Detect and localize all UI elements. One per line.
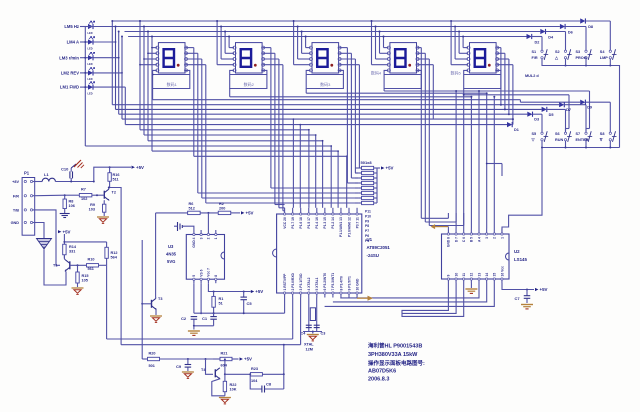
capacitor C4	[306, 324, 312, 326]
svg-text:PROG: PROG	[576, 56, 587, 60]
signal arrow to U2 pin8	[434, 226, 448, 228]
svg-text:LM1 FWD: LM1 FWD	[60, 85, 79, 90]
resistor RN1-1	[362, 166, 374, 169]
svg-text:D2: D2	[535, 41, 540, 45]
svg-text:8: 8	[214, 275, 218, 277]
svg-text:511: 511	[113, 178, 119, 182]
svg-text:C8: C8	[266, 382, 272, 387]
transistor T4	[214, 369, 216, 377]
capacitor C10	[70, 178, 72, 182]
svg-text:9: 9	[447, 275, 451, 277]
svg-text:B 5: B 5	[470, 237, 474, 242]
ground T3	[150, 315, 162, 317]
wire drop to U1	[299, 125, 301, 208]
svg-text:8 P3.4/T0: 8 P3.4/T0	[339, 276, 343, 290]
push button S5	[541, 132, 543, 134]
push button S4	[609, 50, 611, 52]
wire display left feed	[305, 37, 307, 48]
diode D4	[540, 29, 545, 34]
resistor R10	[87, 264, 99, 267]
svg-text:R23: R23	[251, 367, 258, 371]
wire U2-U1 link3	[325, 283, 495, 306]
svg-text:14: 14	[485, 273, 489, 277]
wire display3 right feed	[339, 58, 355, 60]
svg-text:-24SU: -24SU	[367, 253, 379, 258]
svg-text:F/R: F/R	[532, 56, 538, 60]
wire display left feed	[224, 32, 226, 54]
ground R22	[219, 397, 231, 399]
wire display left feed	[462, 37, 464, 48]
svg-text:GND 8: GND 8	[447, 237, 451, 247]
power +5V T1	[58, 230, 61, 233]
power +5V T4	[240, 357, 243, 360]
capacitor C2	[191, 316, 198, 318]
svg-text:10K: 10K	[230, 388, 237, 392]
svg-text:数码3: 数码3	[320, 81, 331, 87]
resistor RN1-5	[362, 186, 374, 189]
wire T4 base feed	[206, 359, 214, 374]
push button S2	[564, 50, 566, 52]
svg-text:2 P3.0/RXD: 2 P3.0/RXD	[291, 272, 295, 290]
connector P1	[22, 178, 35, 236]
capacitor C3	[314, 324, 320, 326]
svg-text:C5: C5	[247, 301, 253, 306]
resistor R12	[105, 247, 108, 258]
wire RST node	[194, 312, 285, 314]
svg-text:D1: D1	[514, 128, 519, 132]
wire top bus line 4	[128, 36, 526, 38]
resistor R21	[220, 357, 232, 360]
svg-text:R22: R22	[230, 383, 237, 387]
resistor R9	[103, 200, 105, 204]
svg-text:P1.5 17: P1.5 17	[307, 217, 311, 229]
svg-text:R21: R21	[221, 352, 228, 356]
wire scan line 8	[148, 140, 323, 142]
wire DS2 common line	[229, 89, 231, 97]
svg-text:D7: D7	[566, 108, 571, 112]
resistor R7	[79, 194, 92, 197]
wire U3 pin5 down	[193, 283, 195, 313]
svg-text:3PH380V33A 15kW: 3PH380V33A 15kW	[368, 352, 418, 358]
svg-text:3: 3	[199, 237, 203, 239]
wire scan line 2	[115, 27, 117, 110]
svg-text:51: 51	[219, 302, 223, 306]
resistor R6	[188, 211, 201, 214]
wire display left feed	[383, 37, 385, 48]
svg-text:1: 1	[214, 237, 218, 239]
capacitor C8	[250, 374, 261, 389]
power +5V at RN1	[381, 166, 384, 169]
svg-text:S7: S7	[576, 132, 581, 136]
wire display left feed	[458, 32, 460, 54]
svg-text:P9: P9	[365, 219, 369, 223]
svg-text:U2: U2	[514, 249, 520, 254]
op-amp U1 AT89C2051 microcontroller	[277, 214, 362, 293]
resistor R20	[148, 357, 160, 360]
wire vertical feed	[141, 240, 143, 359]
wire display1 right feed	[186, 47, 194, 49]
svg-text:LED: LED	[88, 63, 93, 66]
svg-text:S1: S1	[532, 50, 537, 54]
power +5V at U3	[251, 290, 254, 293]
svg-text:D9: D9	[587, 106, 592, 110]
svg-text:2: 2	[493, 237, 497, 239]
svg-text:R9: R9	[90, 203, 95, 207]
wire drop to U1	[337, 151, 339, 208]
ground RST caps	[193, 326, 195, 330]
power +5V at U2 pin16	[502, 283, 534, 290]
svg-text:C7: C7	[515, 296, 521, 301]
svg-text:16 Vcc: 16 Vcc	[500, 266, 504, 277]
wire display under-loop	[230, 70, 267, 88]
wire XTAL1 pin	[316, 298, 318, 332]
svg-text:R12: R12	[111, 251, 118, 255]
capacitor C1	[213, 313, 215, 316]
resistor RN1-2	[362, 171, 374, 174]
wire U3 pin6 down	[200, 283, 202, 313]
svg-text:604: 604	[221, 364, 228, 368]
7-segment display DS1	[158, 43, 185, 73]
wire drop to U1	[346, 156, 348, 208]
svg-text:R20: R20	[149, 352, 156, 356]
wire display2 right feed	[263, 52, 275, 54]
wire U2 input feed	[478, 91, 480, 229]
svg-text:7 P3.3/INT1: 7 P3.3/INT1	[331, 273, 335, 291]
wire drop to U1	[292, 119, 294, 208]
wire display left feed	[147, 32, 149, 141]
svg-text:11: 11	[462, 273, 466, 277]
svg-text:105: 105	[82, 279, 88, 283]
wire display4 right feed	[417, 47, 421, 49]
svg-text:D5: D5	[549, 113, 554, 117]
svg-text:R16: R16	[113, 173, 120, 177]
wire crystal gnd rail	[303, 331, 322, 333]
wire display3 right feed	[339, 47, 347, 49]
7-segment display DS3	[312, 43, 339, 73]
resistor R1	[213, 292, 215, 297]
wire display1 right feed	[186, 64, 206, 66]
wire U2 input feed	[486, 93, 488, 228]
svg-text:R6: R6	[189, 202, 194, 206]
svg-text:GND 4: GND 4	[192, 237, 196, 247]
capacitor C5	[243, 292, 245, 297]
wire row1 button rail	[542, 59, 620, 148]
transistor T3	[151, 300, 153, 308]
wire T3 emitter	[155, 309, 157, 315]
wire +5V rail	[94, 167, 131, 181]
svg-text:+5V: +5V	[246, 211, 254, 216]
svg-text:P7: P7	[365, 229, 369, 233]
svg-text:4N35: 4N35	[166, 252, 177, 257]
svg-text:+5V: +5V	[136, 165, 144, 170]
wire T4 emitter	[212, 379, 225, 396]
wire T1 base node	[70, 264, 87, 266]
wire display left feed	[371, 21, 373, 65]
ground C9	[182, 371, 194, 373]
svg-text:6 P3.2/INT0: 6 P3.2/INT0	[323, 273, 327, 291]
ground C10 diagonal	[71, 164, 76, 168]
svg-text:LM2 REV: LM2 REV	[61, 71, 79, 76]
wire P1 row3 to T1	[37, 210, 61, 265]
svg-text:数码4: 数码4	[371, 70, 382, 76]
svg-text:C10: C10	[61, 167, 69, 172]
svg-text:海利普HL P9001543B: 海利普HL P9001543B	[368, 342, 422, 350]
svg-text:S3: S3	[576, 50, 581, 54]
wire display left feed	[297, 27, 299, 60]
svg-text:106: 106	[69, 204, 75, 208]
wire display1 right feed	[186, 52, 198, 54]
wire display4 right feed	[417, 52, 425, 54]
ground U2 pin12	[470, 283, 472, 288]
svg-text:P10: P10	[365, 214, 371, 218]
svg-text:LM5 Hz: LM5 Hz	[64, 24, 79, 29]
resistor R2	[218, 211, 231, 214]
svg-text:AB07D5K6: AB07D5K6	[368, 368, 396, 374]
wire display left feed	[454, 27, 456, 60]
svg-text:C 6: C 6	[462, 237, 466, 242]
resistor R22	[224, 374, 226, 381]
wire display3 right feed	[339, 52, 351, 54]
wire DS3 common line	[305, 89, 307, 94]
wire U2 input feed	[470, 97, 472, 229]
svg-text:R15: R15	[82, 274, 89, 278]
svg-text:1 RST/VPP: 1 RST/VPP	[283, 273, 287, 291]
capacitor C9	[187, 359, 189, 364]
svg-text:GND: GND	[11, 221, 20, 225]
svg-text:数码5: 数码5	[451, 70, 462, 76]
diode D5	[542, 107, 547, 112]
wire display4 right feed	[417, 64, 433, 66]
wire R12 rail	[64, 241, 106, 243]
svg-text:L1: L1	[44, 172, 49, 177]
wire display2 right feed	[263, 47, 271, 49]
svg-text:C3: C3	[321, 332, 326, 336]
resistor R15	[77, 265, 79, 272]
svg-text:∇: ∇	[599, 138, 603, 142]
wire drop to U1	[308, 130, 310, 208]
inductor L1	[37, 181, 43, 183]
svg-text:LED: LED	[88, 32, 93, 35]
svg-text:103: 103	[89, 208, 95, 212]
svg-text:R10: R10	[88, 258, 95, 262]
wire R6 rail	[156, 212, 188, 214]
wire key common to U2	[502, 148, 542, 235]
wire display left feed	[220, 27, 222, 60]
svg-text:D8: D8	[588, 25, 593, 29]
svg-text:+5V: +5V	[63, 229, 71, 234]
ground P1	[37, 223, 45, 239]
svg-text:S2: S2	[555, 50, 560, 54]
svg-text:+8V: +8V	[12, 180, 19, 184]
resistor R23	[250, 373, 262, 376]
ground R8	[60, 213, 70, 215]
wire T1 emitter	[44, 250, 66, 286]
wire serial line 2	[121, 344, 301, 346]
optocoupler U3	[186, 235, 224, 280]
svg-text:P1.0/AIN0 12: P1.0/AIN0 12	[347, 217, 351, 237]
ground R15	[72, 287, 84, 289]
wire row2 button rail	[542, 141, 620, 148]
wire cap commons	[194, 325, 214, 327]
svg-text:200: 200	[219, 207, 225, 211]
svg-text:XTAL: XTAL	[304, 343, 314, 347]
svg-text:D 7: D 7	[454, 237, 458, 242]
svg-text:501x8: 501x8	[361, 160, 373, 165]
resistor RN1-7	[362, 196, 374, 199]
wire top bus line 1	[112, 20, 580, 22]
svg-text:P3.7 11: P3.7 11	[355, 217, 359, 228]
svg-text:P1.3 15: P1.3 15	[323, 217, 327, 229]
svg-text:15: 15	[493, 273, 497, 277]
wire display left feed	[301, 32, 303, 54]
svg-text:T2: T2	[112, 191, 116, 195]
wire display1 right feed	[186, 58, 202, 60]
push button S3	[585, 50, 587, 52]
svg-text:P1.1/AIN1 13: P1.1/AIN1 13	[339, 217, 343, 237]
diode D8	[580, 18, 585, 23]
diode D9	[580, 100, 585, 105]
wire display left feed	[216, 21, 218, 65]
wire scan line 6	[140, 129, 309, 131]
wire T1 collector	[63, 255, 66, 260]
wire R23 line	[225, 373, 250, 375]
wire serial line 1	[107, 338, 293, 340]
svg-text:T1: T1	[53, 264, 57, 268]
wire display5 right feed	[497, 52, 505, 54]
resistor RN1-3	[362, 176, 374, 179]
wire scan line 3	[118, 32, 120, 115]
diode D2	[527, 34, 532, 39]
wire DS1 common line	[152, 89, 154, 100]
svg-text:4 XTAL2: 4 XTAL2	[307, 277, 311, 290]
svg-text:C9: C9	[176, 364, 182, 369]
wire R20 line	[142, 358, 147, 360]
wire drop to U1	[315, 135, 317, 208]
svg-text:5: 5	[192, 275, 196, 277]
svg-text:R2: R2	[219, 202, 224, 206]
wire display left feed	[151, 37, 153, 152]
wire display5 right feed	[497, 58, 509, 60]
svg-text:P1.4 16: P1.4 16	[315, 217, 319, 229]
wire U3 pin7 VCC	[208, 283, 250, 291]
ground crystal	[312, 332, 314, 334]
wire display left feed	[293, 21, 295, 65]
svg-text:12M: 12M	[306, 348, 313, 352]
wire U2-U1 link2	[333, 283, 487, 302]
ground R9	[97, 216, 109, 218]
svg-text:LED: LED	[88, 78, 93, 81]
svg-text:R7: R7	[81, 188, 86, 192]
svg-text:RUN: RUN	[555, 138, 563, 142]
svg-text:R8: R8	[69, 200, 74, 204]
wire U2 outputs left	[402, 283, 464, 316]
wire scan line 9 (LED common)	[85, 145, 331, 147]
svg-text:LED: LED	[88, 47, 93, 50]
wire U2 input feed	[455, 91, 457, 229]
wire T3 base	[142, 303, 151, 305]
svg-text:U1: U1	[367, 237, 373, 242]
wire display3 right feed	[339, 64, 359, 66]
svg-text:12: 12	[470, 273, 474, 277]
svg-text:C1: C1	[202, 316, 208, 321]
svg-text:数码2: 数码2	[244, 81, 255, 87]
resistor RN1-4	[362, 181, 374, 184]
svg-text:5 XTAL1: 5 XTAL1	[315, 277, 319, 290]
resistor R14	[63, 244, 66, 255]
wire T4 collector	[224, 360, 226, 374]
svg-text:S5: S5	[532, 132, 537, 136]
svg-text:T/B: T/B	[13, 209, 19, 213]
wire U2 input feed	[463, 95, 465, 229]
svg-text:T3: T3	[158, 297, 162, 301]
push button S7	[585, 132, 587, 134]
wire T2 collector	[108, 181, 111, 189]
wire top bus line 3	[125, 31, 541, 33]
diode D1	[507, 122, 512, 127]
svg-text:VS 6: VS 6	[199, 269, 203, 276]
svg-text:1: 1	[500, 237, 504, 239]
wire rail to T3 collector	[155, 213, 157, 297]
svg-text:P1.7 19: P1.7 19	[291, 217, 295, 229]
svg-text:S6: S6	[555, 132, 560, 136]
wire display under-loop	[306, 70, 343, 88]
wire display left feed	[228, 37, 230, 48]
transistor T2	[103, 191, 105, 199]
svg-text:P11: P11	[365, 210, 371, 214]
diode D7	[559, 102, 564, 107]
svg-text:331: 331	[69, 250, 75, 254]
wire scan line 1	[111, 21, 113, 105]
wire U2-U1 link1	[341, 283, 479, 298]
push button S8	[609, 132, 611, 134]
svg-text:561: 561	[88, 267, 94, 271]
crystal Y1 12M	[310, 308, 315, 321]
svg-text:+5V: +5V	[540, 287, 548, 292]
wire display left feed	[450, 21, 452, 65]
wire U2 input feed	[493, 97, 495, 229]
svg-text:A 4: A 4	[477, 237, 481, 242]
svg-text:VCC 20: VCC 20	[283, 217, 287, 229]
svg-text:LM3 r/min: LM3 r/min	[59, 55, 79, 60]
svg-text:R1: R1	[219, 297, 224, 301]
svg-text:AT89C2051: AT89C2051	[367, 245, 391, 250]
diode D3	[527, 112, 532, 117]
svg-text:U3: U3	[168, 244, 174, 249]
wire display under-loop	[464, 70, 501, 88]
resistor RN1-6	[362, 191, 374, 194]
wire display left feed	[143, 27, 145, 136]
7-segment display DS4	[390, 43, 417, 73]
svg-text:LM4 A: LM4 A	[67, 40, 79, 45]
wire to TXD line	[283, 345, 285, 375]
wire top bus line 2	[80, 26, 560, 28]
resistor R8	[64, 195, 66, 199]
svg-text:+5V: +5V	[255, 289, 263, 294]
wire U1 RST pin	[284, 298, 286, 314]
diode D6	[560, 24, 565, 29]
svg-text:操作显示面板电路图号:: 操作显示面板电路图号:	[368, 359, 425, 367]
svg-text:S8: S8	[600, 132, 605, 136]
wire display4 right feed	[417, 58, 429, 60]
push button S1	[541, 50, 543, 52]
wire display5 right feed	[497, 47, 501, 49]
wire display2 right feed	[263, 58, 279, 60]
svg-text:D6: D6	[568, 31, 573, 35]
wire display5 right feed	[497, 64, 513, 66]
wire DS5 common line	[463, 89, 465, 95]
power +5V main	[132, 166, 135, 169]
svg-text:512: 512	[189, 207, 195, 211]
